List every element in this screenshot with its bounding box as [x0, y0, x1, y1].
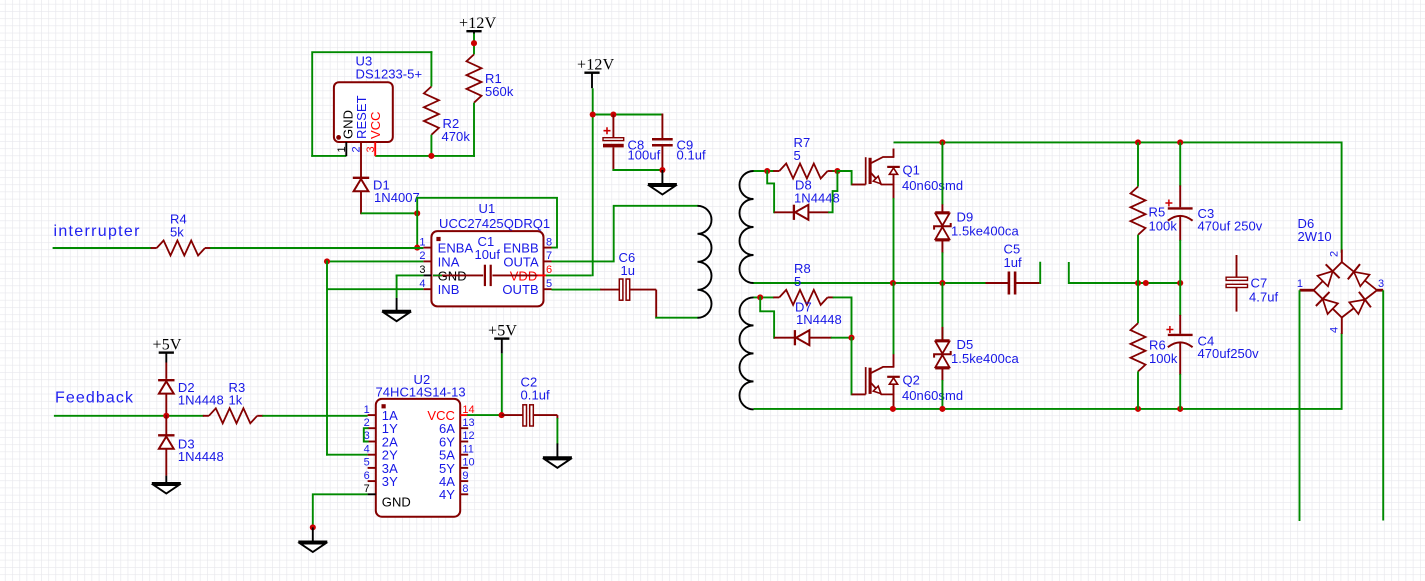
- node Feedback/D2/D3: [163, 413, 169, 419]
- wire INA to U2 pin4 vertical: [326, 260, 328, 455]
- svg-text:1: 1: [336, 146, 348, 152]
- U3 value label: [356, 67, 423, 82]
- svg-text:1N4007: 1N4007: [374, 190, 420, 205]
- U2 pin 9 4A: [439, 470, 469, 489]
- wire +5V to U2 VCC: [467, 353, 503, 416]
- node D1/ENB: [414, 210, 420, 216]
- wire U3 loop (pin1 GND to VCC net): [312, 51, 432, 157]
- node R7 right: [834, 168, 840, 174]
- svg-text:1.5ke400ca: 1.5ke400ca: [951, 351, 1019, 366]
- transistor Q2: [852, 354, 964, 409]
- transistor Q1: [852, 149, 964, 200]
- svg-text:4: 4: [1329, 327, 1341, 333]
- node ENBA junction: [414, 245, 420, 251]
- power +5V flag (D2): [153, 336, 182, 362]
- wire OUTA to coil top: [552, 206, 699, 262]
- wire +12V down to VDD: [546, 88, 593, 276]
- node mid R5/R6 b: [1143, 280, 1149, 286]
- capacitor C5: [986, 242, 1040, 295]
- wire Q1 emitter down: [893, 198, 895, 284]
- capacitor C9: [652, 114, 706, 171]
- D6 pin 1 lead: [1297, 278, 1314, 290]
- svg-text:5: 5: [546, 278, 552, 290]
- U1 pin 5 OUTB: [502, 278, 552, 297]
- svg-text:U1: U1: [479, 201, 496, 216]
- wire coil mid rail: [754, 282, 987, 284]
- svg-text:+12V: +12V: [577, 57, 615, 74]
- wire Q2 collector up: [893, 282, 895, 354]
- transformer primary coil: [698, 206, 712, 318]
- U2 pin 1 1A: [364, 404, 398, 423]
- transformer secondary top coil: [740, 171, 754, 283]
- svg-text:0.1uf: 0.1uf: [677, 148, 707, 163]
- svg-text:+5V: +5V: [153, 336, 182, 353]
- node C8 top: [610, 111, 616, 117]
- resistor R8 labels: [794, 261, 811, 289]
- svg-text:8: 8: [546, 236, 552, 248]
- wire INA: [326, 260, 423, 262]
- wire R2 to bottom net: [430, 135, 432, 157]
- svg-text:R5: R5: [1149, 205, 1166, 220]
- diode D3: [158, 415, 224, 476]
- resistor R2: [424, 87, 470, 145]
- D6 pin 3 lead: [1377, 278, 1384, 290]
- svg-text:9: 9: [462, 470, 468, 482]
- wire INB: [327, 288, 423, 290]
- svg-text:5: 5: [794, 274, 801, 289]
- power +12V rail flag (C8): [577, 57, 615, 89]
- svg-text:C7: C7: [1251, 276, 1268, 291]
- svg-text:2: 2: [350, 146, 362, 152]
- wire Feedback: [54, 415, 204, 417]
- wire OUTB to C6: [552, 289, 602, 291]
- svg-text:DS1233-5+: DS1233-5+: [356, 67, 423, 82]
- wire D5 to bottom rail: [941, 380, 943, 410]
- resistor R1: [467, 54, 514, 102]
- wire coil to R8: [754, 296, 775, 298]
- svg-text:2: 2: [419, 250, 425, 262]
- node D7/Q2 gate: [848, 335, 854, 341]
- wire C5 right stub: [1039, 262, 1042, 283]
- svg-text:ENBB: ENBB: [503, 241, 539, 256]
- svg-text:4.7uf: 4.7uf: [1249, 290, 1279, 305]
- node D9 top: [939, 139, 945, 145]
- svg-text:40n60smd: 40n60smd: [902, 178, 963, 193]
- U1 pin 4 INB: [419, 278, 459, 297]
- svg-text:13: 13: [462, 417, 474, 429]
- transformer secondary bottom coil: [740, 297, 754, 409]
- U1 pin 8 ENBB: [503, 236, 552, 255]
- wire +12V to C9 top: [592, 114, 663, 116]
- svg-text:+12V: +12V: [459, 15, 497, 32]
- wire coil to R7: [754, 170, 775, 172]
- U2 pin 13 6A: [439, 417, 475, 436]
- capacitor C6: [600, 250, 656, 318]
- D6 reference label: [1298, 216, 1315, 231]
- U3 pin 1 (GND): [336, 142, 348, 156]
- wire R3 to U2 pin1: [262, 415, 367, 417]
- U2 pin 11 5A: [439, 443, 474, 462]
- D6 diode 4-3: [1349, 292, 1371, 314]
- wire U2 GND: [313, 494, 368, 528]
- wire bottom rail: [754, 333, 1342, 409]
- U2 pin 6 3Y: [364, 470, 398, 489]
- svg-text:UCC27425QDRQ1: UCC27425QDRQ1: [439, 216, 550, 231]
- capacitor C1: [433, 234, 538, 286]
- capacitor C3 (polarized): [1165, 142, 1262, 284]
- svg-text:Q2: Q2: [903, 373, 920, 388]
- wire R7 to Q1 gate node: [833, 170, 839, 172]
- wire ENB vertical: [416, 197, 418, 249]
- node R7 left: [764, 168, 770, 174]
- U1 pin 2 INA: [419, 250, 459, 269]
- svg-text:2: 2: [364, 417, 370, 429]
- U1 pin 3 GND: [419, 264, 466, 283]
- resistor R7: [773, 135, 834, 179]
- svg-text:Feedback: Feedback: [55, 390, 134, 407]
- wire Q2 gate: [851, 337, 853, 396]
- IC U2 body: [376, 399, 460, 517]
- U1 pin 1 ENBA: [419, 236, 473, 255]
- svg-text:0.1uf: 0.1uf: [521, 388, 551, 403]
- svg-text:GND: GND: [382, 495, 411, 510]
- capacitor C8 (electrolytic): [603, 115, 661, 171]
- diode D7: [774, 300, 842, 346]
- svg-text:VCC: VCC: [368, 111, 383, 139]
- resistor R5: [1131, 142, 1178, 284]
- node INA junction: [324, 258, 330, 264]
- node U3 bottom/R2: [428, 153, 434, 159]
- D6 pin 4 lead: [1329, 318, 1342, 335]
- capacitor C2: [502, 375, 558, 427]
- node mid D9: [939, 280, 945, 286]
- resistor R6: [1131, 282, 1178, 410]
- node bottom D5: [939, 406, 945, 412]
- U2 pin 3 2A: [364, 430, 398, 449]
- wire U2 1Y-2A loop: [364, 428, 369, 441]
- D6 diode 4-1: [1316, 292, 1338, 314]
- wire top rail: [894, 142, 1342, 252]
- svg-text:3Y: 3Y: [382, 474, 398, 489]
- svg-text:8: 8: [462, 483, 468, 495]
- diode D9 (TVS): [934, 141, 1019, 253]
- svg-text:1.5ke400ca: 1.5ke400ca: [951, 224, 1019, 239]
- U2 pin 7 GND: [364, 483, 411, 510]
- node +12V/R1: [471, 40, 477, 46]
- node mid R5/R6 a: [1135, 280, 1141, 286]
- svg-text:6: 6: [546, 264, 552, 276]
- U1 pin 6 VDD: [510, 264, 552, 283]
- node bottom Q2 emitter: [890, 406, 896, 412]
- svg-text:470uf250v: 470uf250v: [1198, 346, 1260, 361]
- wire Q1 gate: [836, 171, 851, 185]
- U2 pin 8 4Y: [439, 483, 469, 502]
- svg-text:+5V: +5V: [488, 322, 517, 339]
- diode bridge D6 frame: [1314, 262, 1377, 317]
- ground D3: [152, 476, 181, 494]
- node R5 top: [1135, 139, 1141, 145]
- svg-text:4: 4: [419, 278, 425, 290]
- svg-text:D5: D5: [957, 337, 974, 352]
- svg-text:1: 1: [419, 236, 425, 248]
- diode D1: [353, 178, 420, 215]
- D6 diode 1-2: [1318, 264, 1340, 286]
- svg-text:10uf: 10uf: [475, 247, 501, 262]
- wire R4 to U1 pin1: [210, 247, 423, 249]
- wire D7 right: [831, 337, 853, 339]
- U2 pin 10 5Y: [439, 457, 475, 476]
- U3 pin name RESET: [354, 95, 369, 139]
- IC U1 body: [431, 231, 543, 306]
- wire D1 to ENB node: [361, 212, 418, 214]
- svg-text:7: 7: [546, 250, 552, 262]
- D6 pin 2 lead: [1329, 250, 1342, 263]
- svg-text:560k: 560k: [485, 84, 514, 99]
- svg-text:5: 5: [794, 148, 801, 163]
- node mid Q1 emitter: [890, 280, 896, 286]
- wire output pin1: [1299, 290, 1301, 521]
- svg-text:1N4448: 1N4448: [796, 312, 842, 327]
- diode D8: [774, 178, 840, 220]
- svg-text:100uf: 100uf: [628, 148, 661, 163]
- wire D8 left jog: [767, 170, 774, 213]
- U1 value label: [439, 216, 550, 231]
- U3 reference label: [356, 54, 373, 69]
- U3 pin name GND: [341, 110, 356, 139]
- wire D9 to mid rail: [941, 252, 943, 283]
- svg-text:7: 7: [364, 483, 370, 495]
- wire U2 2Y from INA/INB: [326, 454, 368, 456]
- U1 reference label: [479, 201, 496, 216]
- svg-text:1uf: 1uf: [1004, 255, 1023, 270]
- node C4 bottom: [1177, 406, 1183, 412]
- svg-text:4: 4: [364, 443, 370, 455]
- U1 pin 7 OUTA: [503, 250, 552, 269]
- svg-text:5: 5: [364, 457, 370, 469]
- D6 value label: [1298, 229, 1332, 244]
- svg-text:interrupter: interrupter: [54, 223, 141, 240]
- svg-text:6: 6: [364, 470, 370, 482]
- wire C6 to coil bottom: [655, 317, 698, 319]
- U3 pin name VCC: [368, 111, 383, 139]
- wire R8 to Q2 gate node: [833, 297, 852, 338]
- wire interrupter: [53, 247, 152, 249]
- wire D7 left jog: [760, 296, 774, 338]
- wire output pin3: [1382, 290, 1384, 520]
- svg-text:5k: 5k: [170, 225, 184, 240]
- svg-text:Q1: Q1: [903, 163, 920, 178]
- wire D8 right jog: [828, 172, 837, 212]
- U2 pin 14 VCC: [427, 404, 474, 423]
- svg-text:470uf 250v: 470uf 250v: [1198, 219, 1263, 234]
- svg-text:40n60smd: 40n60smd: [902, 388, 963, 403]
- power +5V flag (U2): [488, 322, 517, 353]
- svg-text:74HC14S14-13: 74HC14S14-13: [376, 385, 466, 400]
- ground U1: [382, 298, 411, 321]
- svg-text:ENBA: ENBA: [438, 241, 474, 256]
- svg-text:100k: 100k: [1149, 219, 1178, 234]
- ground C2: [543, 443, 572, 467]
- svg-text:OUTB: OUTB: [502, 282, 538, 297]
- svg-text:1N4448: 1N4448: [178, 393, 224, 408]
- svg-text:100k: 100k: [1149, 351, 1178, 366]
- svg-text:14: 14: [462, 404, 474, 416]
- node C9 ground: [659, 167, 665, 173]
- node U2 ground: [310, 524, 316, 530]
- svg-text:12: 12: [462, 430, 474, 442]
- svg-text:D9: D9: [957, 210, 974, 225]
- node C3 top: [1177, 139, 1183, 145]
- IC U3 body: [334, 82, 393, 142]
- capacitor C4 (polarized): [1166, 282, 1259, 410]
- wire mid rail right: [1069, 262, 1181, 283]
- resistor R3: [203, 380, 263, 423]
- svg-text:INB: INB: [438, 282, 460, 297]
- net label Feedback: [55, 390, 134, 407]
- svg-text:10: 10: [462, 457, 474, 469]
- wire U1 GND: [396, 275, 442, 298]
- ground U2: [298, 527, 327, 552]
- svg-text:3: 3: [365, 146, 377, 152]
- svg-text:11: 11: [462, 443, 474, 455]
- diode D2: [158, 363, 224, 417]
- ground C8/C9: [648, 170, 677, 195]
- U2 pin 4 2Y: [364, 443, 398, 462]
- wire R1 to U3 net: [431, 103, 476, 157]
- wire C2 to ground: [556, 418, 558, 444]
- resistor R8: [773, 290, 834, 305]
- node U2 VCC: [499, 412, 505, 418]
- node R6 bottom: [1135, 406, 1141, 412]
- net label interrupter: [54, 223, 141, 240]
- wire ENBB loop: [416, 198, 557, 248]
- wire U3 bottom net: [311, 155, 432, 157]
- svg-text:2: 2: [1329, 251, 1341, 257]
- node +12V/C8a: [590, 111, 596, 117]
- svg-text:INA: INA: [438, 254, 460, 269]
- wire C8 bottom to C9 bottom: [612, 169, 663, 171]
- U2 pin 12 6Y: [439, 430, 475, 449]
- svg-text:OUTA: OUTA: [503, 254, 539, 269]
- resistor R4: [151, 212, 212, 256]
- svg-text:1: 1: [364, 404, 370, 416]
- U2 pin 2 1Y: [364, 417, 398, 436]
- D6 diode 3-2: [1348, 264, 1370, 286]
- node mid C3/C4: [1177, 280, 1183, 286]
- svg-text:1u: 1u: [621, 263, 636, 278]
- node R8 left: [757, 294, 763, 300]
- svg-text:1: 1: [1297, 278, 1303, 290]
- svg-text:3: 3: [419, 264, 425, 276]
- U2 value label: [376, 385, 466, 400]
- svg-text:RESET: RESET: [354, 95, 369, 139]
- diode D5 (TVS): [934, 282, 1019, 381]
- svg-text:1N4448: 1N4448: [178, 449, 224, 464]
- power +12V rail flag (top): [459, 15, 497, 34]
- svg-text:3: 3: [1378, 278, 1384, 290]
- svg-text:1k: 1k: [229, 393, 243, 408]
- U2 pin 5 3A: [364, 457, 398, 476]
- U2 reference label: [414, 372, 431, 387]
- svg-text:4Y: 4Y: [439, 487, 455, 502]
- wire +12V to R1: [473, 34, 475, 55]
- svg-text:470k: 470k: [442, 129, 471, 144]
- U3 pin 2 (RESET): [350, 142, 362, 178]
- capacitor C7: [1226, 255, 1278, 312]
- U3 pin 3 (VCC): [365, 142, 377, 156]
- svg-text:2W10: 2W10: [1298, 229, 1332, 244]
